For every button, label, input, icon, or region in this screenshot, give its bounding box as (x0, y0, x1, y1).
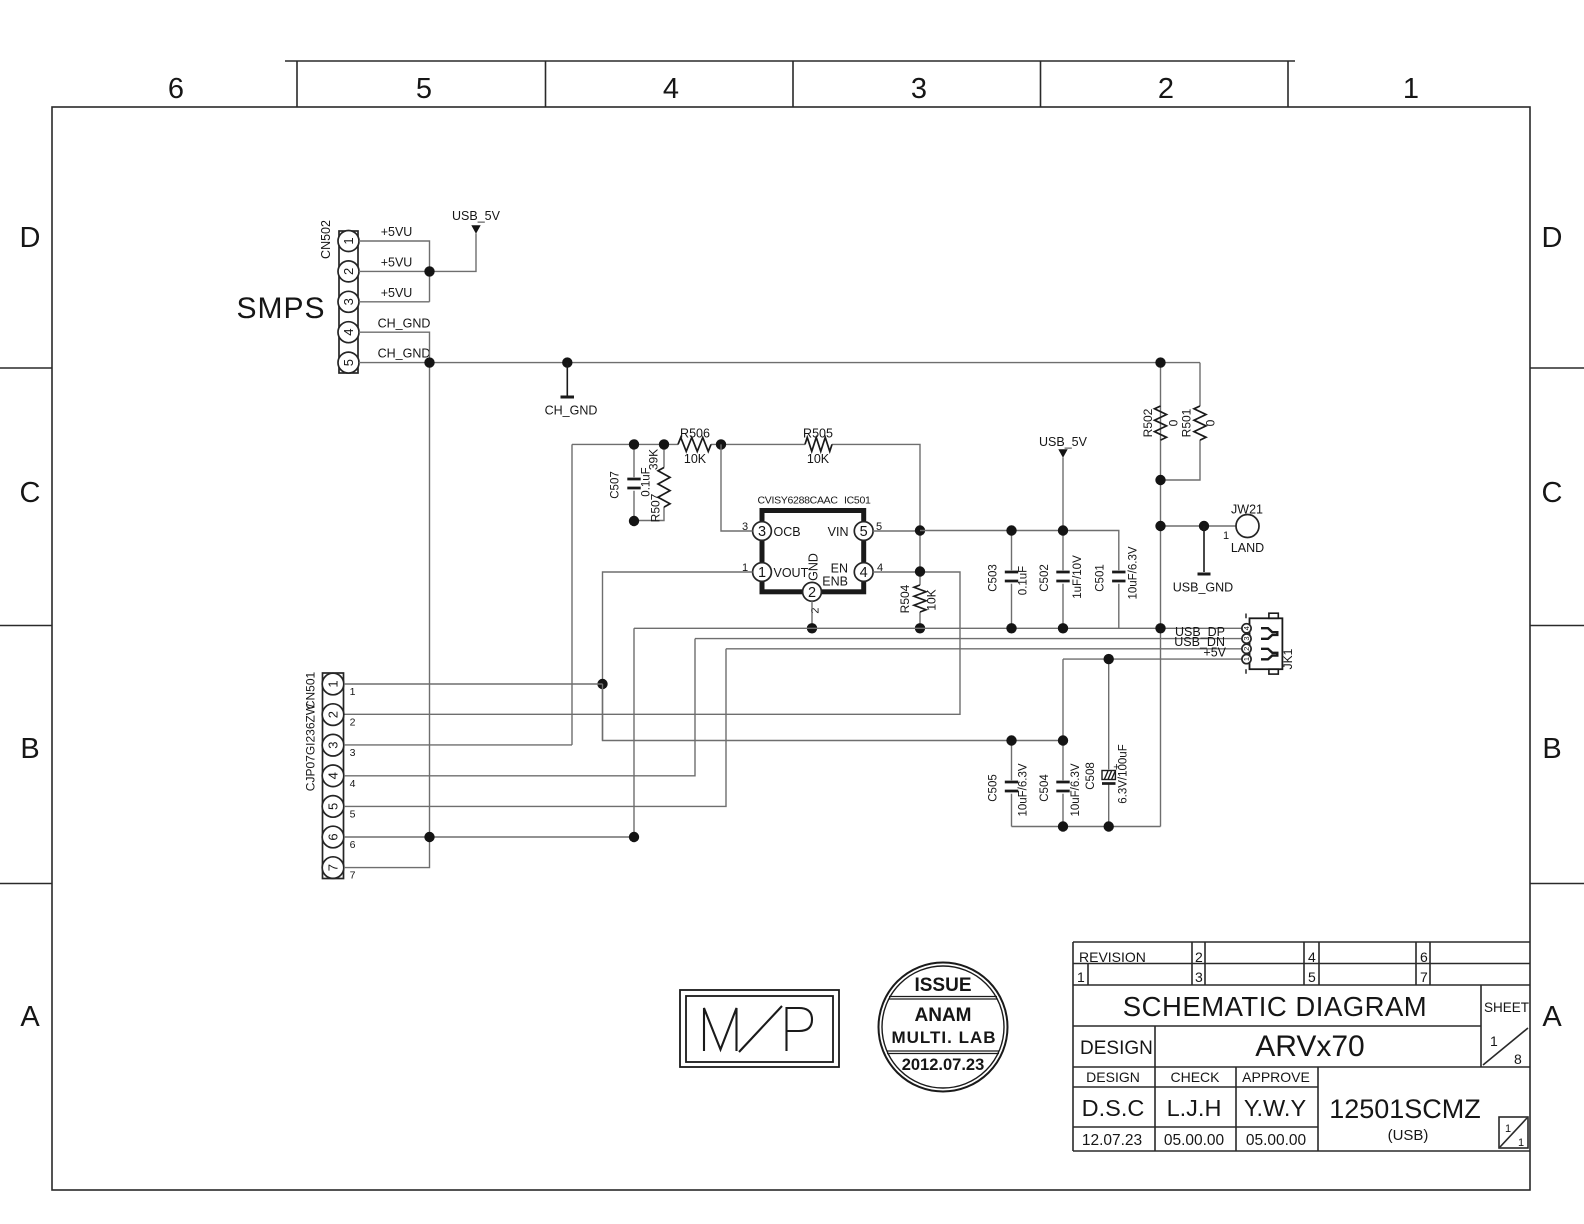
svg-text:5: 5 (326, 803, 341, 810)
svg-text:+5VU: +5VU (381, 286, 413, 300)
svg-text:5: 5 (350, 808, 356, 820)
svg-text:DESIGN: DESIGN (1086, 1069, 1140, 1085)
wire CN502 pin2 +5VU (359, 234, 476, 272)
M/P logo (680, 990, 839, 1067)
svg-text:C503: C503 (988, 564, 1000, 592)
svg-text:C501: C501 (1095, 564, 1107, 592)
svg-text:6: 6 (350, 839, 356, 851)
IC IC501 CVISY6288CAAC body (762, 511, 864, 592)
wire VOUT pin1 (603, 572, 753, 741)
wire +5V rail to caps (603, 659, 1064, 740)
svg-text:B: B (1542, 733, 1561, 765)
capacitor C503 (1011, 531, 1013, 629)
svg-text:R505: R505 (803, 427, 833, 441)
wire USB_GND vertical main (1160, 363, 1162, 827)
svg-text:A: A (20, 1001, 40, 1033)
svg-text:3: 3 (758, 524, 766, 540)
svg-text:05.00.00: 05.00.00 (1246, 1132, 1307, 1149)
svg-text:D: D (20, 222, 41, 254)
junction dots cap rail (1006, 525, 1016, 535)
power symbol USB_5V (left) (471, 225, 480, 234)
junction dots IC area (915, 525, 925, 535)
svg-text:4: 4 (860, 565, 868, 581)
svg-text:5: 5 (341, 359, 356, 366)
svg-text:5: 5 (416, 73, 432, 105)
svg-text:7: 7 (1420, 969, 1428, 985)
wire OCB rail (572, 444, 920, 530)
ground USB_GND (1203, 526, 1205, 572)
IC501 pin 4 EN/ENB (854, 563, 873, 582)
svg-text:0: 0 (1204, 419, 1218, 426)
svg-text:1: 1 (1077, 969, 1085, 985)
svg-text:C507: C507 (610, 471, 622, 499)
wire USB_DP (695, 638, 1242, 640)
svg-text:JW21: JW21 (1231, 503, 1263, 517)
wire JW21 branch (1161, 525, 1237, 527)
svg-text:1: 1 (350, 686, 356, 698)
svg-text:3: 3 (1242, 637, 1251, 641)
svg-text:8: 8 (1514, 1051, 1522, 1067)
svg-text:1: 1 (758, 565, 766, 581)
wire CN502 junction down to CN501 pin6 (429, 363, 431, 837)
svg-text:2012.07.23: 2012.07.23 (902, 1056, 985, 1074)
svg-text:1uF/10V: 1uF/10V (1072, 555, 1084, 599)
connector CN502 (319, 220, 359, 373)
junction dots R501 R502 (1155, 357, 1165, 367)
IC501 pin 1 VOUT (753, 563, 772, 582)
wire CN501 pin6 GND (344, 628, 634, 837)
svg-text:2: 2 (326, 711, 341, 718)
svg-text:R502: R502 (1141, 408, 1155, 437)
svg-text:1: 1 (1223, 530, 1229, 542)
svg-text:USB_5V: USB_5V (452, 209, 501, 223)
svg-text:USB_GND: USB_GND (1173, 581, 1233, 595)
svg-text:7: 7 (350, 870, 356, 882)
svg-text:(USB): (USB) (1388, 1127, 1429, 1144)
svg-text:6.3V/100uF: 6.3V/100uF (1118, 744, 1130, 803)
svg-text:1: 1 (1505, 1123, 1511, 1135)
svg-text:OCB: OCB (774, 525, 801, 539)
svg-text:39K: 39K (647, 449, 661, 470)
wire CN502 pin1 +5VU loop (359, 241, 430, 302)
svg-text:L.J.H: L.J.H (1167, 1095, 1222, 1121)
ground CH_GND (562, 357, 572, 367)
svg-text:REVISION: REVISION (1079, 949, 1146, 965)
svg-text:VOUT: VOUT (774, 566, 809, 580)
IC501 pin 3 OCB (753, 522, 772, 541)
svg-text:SCHEMATIC DIAGRAM: SCHEMATIC DIAGRAM (1123, 991, 1427, 1022)
svg-text:1: 1 (1242, 657, 1251, 661)
svg-text:10K: 10K (925, 589, 939, 610)
svg-text:4: 4 (1242, 626, 1251, 630)
resistor R501 (1161, 363, 1201, 480)
junction dots CN501 (424, 832, 434, 842)
wire OCB rail to CN501 pin3 (571, 444, 573, 745)
svg-text:3: 3 (350, 747, 356, 759)
svg-text:R501: R501 (1180, 408, 1194, 437)
svg-text:VIN: VIN (828, 525, 849, 539)
wire USB_DN (726, 648, 1242, 650)
svg-text:3: 3 (911, 73, 927, 105)
svg-text:D: D (1542, 222, 1563, 254)
svg-text:C508: C508 (1085, 762, 1097, 790)
wire CN501 pin5 USB_DN riser (344, 649, 726, 807)
wire CN501 pin1 to VOUT node (344, 683, 603, 685)
svg-text:5: 5 (860, 524, 868, 540)
svg-text:ARVx70: ARVx70 (1255, 1030, 1365, 1063)
svg-text:10uF/6.3V: 10uF/6.3V (1128, 546, 1140, 599)
wire VIN cap rail (920, 531, 1119, 571)
wire CH_GND rail (359, 362, 1200, 364)
capacitor C508 electrolytic (1108, 659, 1110, 826)
resistor R505 (805, 437, 832, 451)
svg-text:4: 4 (663, 73, 679, 105)
svg-text:+5V: +5V (1203, 646, 1226, 660)
wire EN pin4 to CN501 pin2 (344, 572, 960, 714)
svg-text:CVISY6288CAAC: CVISY6288CAAC (758, 495, 839, 507)
wire CN501 pin4 USB_DP riser (344, 639, 695, 776)
capacitor C501 (1112, 572, 1125, 581)
wire GND pin2 (811, 601, 813, 628)
svg-text:GND: GND (807, 553, 821, 581)
svg-text:APPROVE: APPROVE (1242, 1069, 1310, 1085)
svg-text:10uF/6.3V: 10uF/6.3V (1018, 763, 1030, 816)
svg-text:ANAM: ANAM (915, 1005, 972, 1026)
capacitor C502 (1062, 531, 1064, 629)
svg-text:R507: R507 (649, 493, 663, 522)
svg-text:4: 4 (326, 772, 341, 779)
wire +5V (1063, 658, 1242, 660)
svg-text:2: 2 (1158, 73, 1174, 105)
svg-text:6: 6 (326, 833, 341, 840)
resistor R507 (634, 444, 664, 520)
svg-text:CH_GND: CH_GND (378, 317, 431, 331)
svg-text:0.1uF: 0.1uF (1018, 566, 1030, 595)
svg-text:12501SCMZ: 12501SCMZ (1329, 1094, 1481, 1124)
wire CN501 pin7 (344, 837, 430, 868)
svg-text:0.1uF: 0.1uF (641, 467, 653, 496)
capacitor C504 (1062, 741, 1064, 827)
connector CN501 (304, 672, 356, 882)
svg-text:ENB: ENB (822, 575, 848, 589)
connector JK1 USB (1242, 613, 1295, 674)
svg-text:5: 5 (1308, 969, 1316, 985)
svg-text:1: 1 (326, 680, 341, 687)
IC501 pin 5 VIN (854, 522, 873, 541)
jumper JW21 LAND (1236, 515, 1259, 538)
svg-text:SMPS: SMPS (236, 292, 325, 325)
svg-text:+5VU: +5VU (381, 256, 413, 270)
svg-text:3: 3 (341, 298, 356, 305)
svg-text:2: 2 (341, 268, 356, 275)
svg-text:USB_5V: USB_5V (1039, 435, 1088, 449)
resistor R502 (1155, 406, 1167, 440)
svg-text:C502: C502 (1039, 564, 1051, 592)
svg-text:1: 1 (341, 237, 356, 244)
svg-text:MULTI. LAB: MULTI. LAB (891, 1028, 996, 1047)
svg-text:2: 2 (350, 717, 356, 729)
svg-text:R506: R506 (680, 427, 710, 441)
svg-text:A: A (1542, 1001, 1562, 1033)
svg-text:7: 7 (326, 864, 341, 871)
svg-text:2: 2 (808, 585, 816, 601)
svg-text:SHEET: SHEET (1484, 1000, 1529, 1015)
junction dot GND rail right (1155, 623, 1165, 633)
svg-text:C505: C505 (988, 774, 1000, 802)
svg-text:1: 1 (1518, 1137, 1524, 1149)
svg-text:6: 6 (1420, 949, 1428, 965)
junction dots +5V and bottom rails (1006, 735, 1016, 745)
svg-text:1: 1 (1490, 1033, 1498, 1049)
svg-text:CN501: CN501 (304, 672, 318, 710)
svg-text:12.07.23: 12.07.23 (1082, 1132, 1142, 1149)
resistor R504 (919, 572, 921, 629)
IC501 pin 2 GND (803, 582, 822, 601)
wire cap bottom rail (1012, 826, 1161, 828)
wire CN501 pin3 (344, 744, 572, 746)
wire VIN pin5 to rail (873, 530, 920, 532)
svg-text:LAND: LAND (1231, 541, 1264, 555)
svg-text:B: B (20, 733, 39, 765)
svg-text:4: 4 (1308, 949, 1316, 965)
svg-text:IC501: IC501 (844, 495, 871, 507)
svg-text:EN: EN (831, 562, 848, 576)
svg-text:DESIGN: DESIGN (1080, 1038, 1153, 1059)
svg-text:0: 0 (1167, 419, 1181, 426)
wire CN502 pin4 to pin5 (359, 332, 430, 362)
svg-text:CN502: CN502 (319, 220, 333, 259)
svg-text:3: 3 (1195, 969, 1203, 985)
svg-text:Y.W.Y: Y.W.Y (1244, 1095, 1307, 1121)
svg-text:R504: R504 (898, 584, 912, 613)
wire GND rail (634, 627, 1242, 629)
svg-text:+5VU: +5VU (381, 225, 413, 239)
power symbol USB_5V (right) (1062, 458, 1064, 531)
junction dots OCB rail (629, 439, 639, 449)
svg-text:10uF/6.3V: 10uF/6.3V (1070, 763, 1082, 816)
svg-text:10K: 10K (684, 452, 707, 466)
resistor R506 (678, 437, 711, 451)
ISSUE ANAM MULTI. LAB stamp (879, 963, 1008, 1092)
svg-text:1: 1 (1403, 73, 1419, 105)
svg-text:C: C (20, 477, 41, 509)
svg-text:CHECK: CHECK (1170, 1069, 1220, 1085)
svg-text:D.S.C: D.S.C (1082, 1095, 1145, 1121)
capacitor C507 (633, 444, 635, 521)
svg-text:4: 4 (341, 329, 356, 336)
svg-text:2: 2 (1195, 949, 1203, 965)
title block (1073, 942, 1530, 1151)
svg-text:CJP07GI236ZW: CJP07GI236ZW (304, 703, 318, 791)
svg-text:2: 2 (1242, 647, 1251, 651)
svg-text:JK1: JK1 (1281, 648, 1295, 669)
svg-text:10K: 10K (807, 452, 830, 466)
svg-text:CH_GND: CH_GND (378, 347, 431, 361)
svg-text:05.00.00: 05.00.00 (1164, 1132, 1225, 1149)
svg-text:ISSUE: ISSUE (914, 975, 971, 996)
wire OCB pin3 (721, 444, 753, 531)
svg-text:C504: C504 (1039, 774, 1051, 802)
svg-text:C: C (1542, 477, 1563, 509)
svg-text:3: 3 (326, 742, 341, 749)
junction dots CN502 area (424, 266, 434, 276)
capacitor C505 (1011, 741, 1013, 827)
svg-text:CH_GND: CH_GND (545, 404, 598, 418)
wire VIN-EN tie (919, 531, 921, 572)
svg-text:6: 6 (168, 73, 184, 105)
svg-text:4: 4 (350, 778, 356, 790)
